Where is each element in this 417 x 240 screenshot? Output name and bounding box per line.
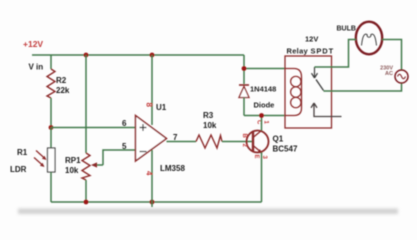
RP1 wiper arrow — [96, 164, 103, 166]
potentiometer RP1 — [82, 153, 90, 180]
svg-text:10k: 10k — [203, 121, 217, 130]
wire to diode cathode — [243, 69, 245, 85]
wire op-amp pin8 from rail — [151, 55, 153, 125]
wire emitter down to rail — [261, 153, 263, 203]
svg-text:B: B — [241, 134, 247, 139]
wire R2 top lead — [50, 55, 52, 69]
svg-text:AC: AC — [385, 71, 393, 77]
svg-text:10k: 10k — [65, 166, 79, 175]
transistor Q1 — [247, 131, 269, 153]
junction dot top rail / op-amp pin8 branch — [150, 53, 155, 58]
wire LDR bottom lead — [50, 172, 52, 202]
svg-text:LDR: LDR — [10, 165, 27, 174]
wire relay common to AC source — [324, 83, 402, 91]
junction dot rail/RP1 — [84, 200, 89, 205]
svg-text:8: 8 — [145, 103, 154, 108]
svg-text:LM358: LM358 — [160, 164, 185, 173]
svg-text:U1: U1 — [156, 103, 167, 112]
wire R3 to base — [222, 141, 252, 143]
wire wiper to op-amp pin5 — [103, 150, 136, 165]
resistor R3 — [196, 135, 222, 148]
relay NO contact arrow — [312, 67, 318, 78]
wire bulb left to relay NO contact — [315, 40, 357, 68]
svg-text:R3: R3 — [203, 111, 214, 120]
wire top rail +12V — [32, 54, 244, 56]
svg-text:12V: 12V — [305, 35, 318, 44]
svg-text:V in: V in — [29, 63, 44, 72]
svg-text:RP1: RP1 — [65, 156, 81, 165]
wire R2 bottom lead — [50, 98, 52, 128]
wire LDR top lead — [50, 128, 52, 149]
svg-text:R2: R2 — [56, 76, 67, 85]
svg-text:R1: R1 — [17, 148, 28, 157]
svg-text:Diode: Diode — [254, 101, 275, 110]
wire collector up — [261, 116, 263, 131]
wire RP1 bottom lead — [85, 180, 87, 202]
svg-text:+12V: +12V — [23, 39, 43, 49]
relay RL1 box — [285, 56, 332, 128]
relay NC contact arrow — [311, 103, 342, 117]
AC source V1 230V — [395, 70, 408, 83]
wire bulb right to AC source — [382, 40, 402, 71]
svg-text:7: 7 — [173, 133, 178, 142]
svg-text:E: E — [253, 155, 259, 159]
relay coil — [285, 69, 302, 116]
wire RP1 branch from rail — [85, 55, 87, 153]
junction dot top rail / RP1 branch — [84, 53, 89, 58]
svg-text:4: 4 — [145, 171, 154, 176]
wire op-amp pin4 to rail — [151, 150, 153, 207]
wire diode anode down — [243, 98, 245, 116]
junction dot Vin node — [49, 125, 54, 130]
svg-text:SPDT: SPDT — [311, 47, 335, 56]
photoresistor R1 LDR body — [48, 148, 56, 172]
svg-text:BULB: BULB — [337, 26, 356, 33]
wire Vin node to op-amp pin6 — [51, 127, 136, 129]
wire to relay coil top — [244, 68, 285, 70]
photoresistor R1 light arrows — [36, 151, 46, 160]
diode D1 1N4148 — [239, 84, 249, 86]
junction dot rail/pin4 — [150, 200, 155, 205]
svg-text:BC547: BC547 — [273, 145, 298, 154]
svg-text:5: 5 — [122, 142, 127, 151]
svg-text:Q1: Q1 — [273, 135, 284, 144]
wire op-amp output to R3 — [167, 141, 197, 143]
svg-text:C: C — [256, 120, 262, 125]
junction dot collector node — [259, 113, 264, 118]
lamp filament — [362, 34, 377, 45]
wire anode node to relay coil bottom — [244, 115, 285, 117]
junction dot relay/diode node — [242, 66, 247, 71]
relay switch arm — [316, 80, 324, 91]
resistor R2 — [47, 69, 55, 98]
svg-text:22k: 22k — [56, 86, 70, 95]
wire bottom ground rail — [51, 201, 262, 203]
op-amp U1 — [136, 116, 167, 162]
svg-text:6: 6 — [122, 119, 127, 128]
wire top rail corner down — [243, 55, 245, 69]
svg-text:Relay: Relay — [287, 47, 309, 56]
svg-text:1N4148: 1N4148 — [250, 85, 276, 94]
